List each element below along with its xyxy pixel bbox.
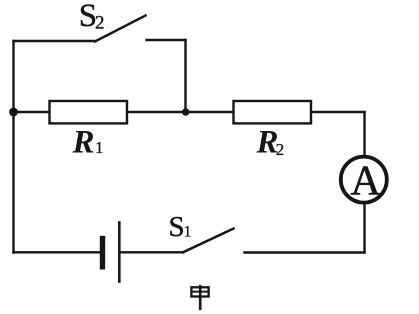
svg-text:1: 1 [184, 224, 192, 241]
wire: node A to R1 left terminal [14, 111, 50, 113]
wire: top-left horizontal to S2 pivot [14, 40, 96, 42]
caption 甲 (figure label) drawn as strokes [191, 286, 208, 309]
ammeter A1 circle [341, 157, 387, 203]
node A (junction dot left) [9, 108, 18, 117]
switch S1 blade (open) [183, 229, 234, 253]
svg-text:R: R [72, 124, 95, 160]
wire: R2 right terminal to top-right corner [311, 111, 365, 113]
resistor R1 body [50, 101, 128, 123]
switch S2 blade (open) [95, 16, 146, 42]
svg-text:S: S [169, 211, 185, 243]
wire: bottom-left horizontal to battery [14, 251, 101, 253]
svg-text:2: 2 [276, 140, 285, 159]
wire: ammeter to bottom-right corner [363, 203, 365, 253]
battery short plate (negative) [100, 239, 105, 267]
resistor R2 body [234, 101, 312, 123]
wire: battery positive to S1 pivot [121, 251, 183, 253]
node B (junction dot between R1 and R2) [182, 108, 189, 115]
wire: left vertical branch [12, 41, 14, 253]
battery long plate (positive) [118, 223, 121, 282]
wire: bottom-right horizontal to S1 contact [245, 251, 365, 253]
svg-text:1: 1 [95, 138, 104, 157]
svg-text:2: 2 [95, 13, 105, 34]
wire: S2 right contact horizontal [147, 39, 186, 41]
wire: right vertical down to ammeter [363, 112, 365, 156]
wire: R1 right terminal to R2 left terminal through node B [127, 111, 234, 113]
svg-text:A: A [351, 158, 382, 204]
wire: right branch vertical down to node B [184, 40, 186, 112]
